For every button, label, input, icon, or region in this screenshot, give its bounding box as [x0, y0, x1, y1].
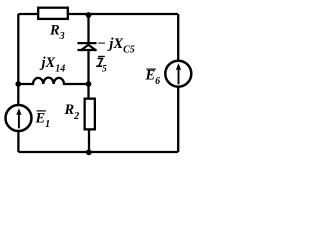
- svg-text:5: 5: [102, 64, 107, 74]
